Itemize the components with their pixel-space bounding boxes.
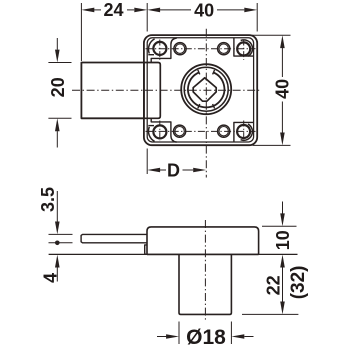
- top view: cover plate seam outline: [147, 38, 253, 142]
- dim D: extension line left: [146, 149, 148, 175]
- side view: flange: [147, 227, 259, 255]
- small hole bottom-right (double circle): [218, 125, 230, 137]
- dim D: arrow left: [147, 168, 160, 173]
- ear arc around BR hole: [241, 124, 253, 140]
- rotor circle: [188, 73, 224, 108]
- dim 40 right: arrow up: [280, 35, 285, 48]
- small hole top-right (double circle): [218, 43, 230, 55]
- dim 20: extension line top: [48, 62, 71, 64]
- svg-text:Ø18: Ø18: [186, 326, 226, 349]
- corner screw hole TL: [153, 42, 166, 55]
- hole centerline horizontal top: [146, 48, 256, 50]
- corner screw hole BR: [237, 125, 250, 138]
- square spindle hole (diamond): [193, 78, 216, 101]
- ear step lines BL: [148, 125, 154, 127]
- dim D: arrow right: [193, 168, 206, 173]
- dim 40: extension line right: [256, 3, 258, 32]
- corner screw hole TR: [237, 42, 250, 55]
- svg-text:(32): (32): [288, 266, 309, 300]
- dim O18: extension line right: [230, 322, 232, 345]
- ear arc around TL hole: [148, 39, 154, 54]
- dim 10: extension line top: [262, 225, 297, 227]
- hole centerline vertical BL: [159, 121, 161, 141]
- svg-text:22: 22: [263, 275, 283, 295]
- dim 3.5: dot line: [49, 242, 73, 244]
- dim 22: line: [282, 267, 284, 302]
- side view: mounting step bottom-left: [145, 245, 147, 255]
- svg-text:10: 10: [273, 230, 293, 250]
- svg-text:D: D: [167, 161, 180, 181]
- dim 10: arrow down (above): [282, 202, 284, 215]
- top view: lock case outer outline: [144, 35, 257, 145]
- dim 40 right: extension line bottom: [253, 144, 291, 146]
- dim O18: arrow right-pointing (left side): [157, 336, 167, 338]
- dim 24/40: extension line middle: [146, 3, 148, 32]
- small hole top-left (double circle): [174, 43, 186, 55]
- ear step lines BR: [234, 122, 254, 142]
- dim 20: extension line bottom: [48, 117, 71, 119]
- svg-text:24: 24: [103, 0, 123, 20]
- latch housing rectangle (24x20): [81, 63, 143, 119]
- rotor tick top-left: [198, 70, 200, 75]
- dim 40 right: extension line top: [252, 34, 291, 36]
- dim 24: extension line left: [80, 3, 82, 61]
- dim 3.5: dot: [55, 241, 60, 246]
- dim 40 top: arrow right: [244, 8, 257, 13]
- dim 10/22 shared: arrow up (below 254.4): [280, 255, 285, 268]
- dim 22: extension line bottom: [242, 313, 298, 315]
- small hole bottom-left (double circle): [174, 125, 186, 137]
- rotor tick bottom-left: [198, 104, 200, 109]
- cylinder second circle: [184, 67, 228, 111]
- side view: centerline vertical: [204, 220, 206, 321]
- hole centerline horizontal bottom: [146, 130, 256, 132]
- svg-text:40: 40: [273, 79, 293, 99]
- dim 40 right: arrow down: [280, 133, 285, 146]
- dim 22: arrow down: [280, 302, 285, 315]
- dim O18: extension line left: [178, 322, 180, 345]
- centerline vertical (top view): [205, 29, 207, 178]
- dim 24: arrow left: [81, 8, 94, 13]
- svg-text:4: 4: [40, 273, 60, 283]
- dim 24: arrow right: [134, 8, 147, 13]
- side view: cylinder body: [179, 254, 231, 314]
- corner screw hole BL: [153, 125, 166, 138]
- svg-text:40: 40: [194, 0, 214, 20]
- rotor tick top-right: [213, 70, 215, 75]
- dim 40 top: arrow left: [147, 8, 160, 13]
- rotor tick bottom-right: [213, 104, 215, 109]
- hole centerline vertical TL: [159, 40, 161, 61]
- side view: flange bottom line with extensions: [49, 253, 298, 255]
- svg-text:3.5: 3.5: [38, 187, 58, 212]
- side view: latch bolt: [81, 234, 147, 242]
- dim 20: arrow bottom: [56, 131, 58, 147]
- dim O18: arrow left-pointing (right side): [231, 334, 244, 339]
- ear arc around BL hole: [148, 127, 154, 142]
- hole centerline vertical BR: [243, 121, 245, 141]
- dim 4: arrow up: [55, 255, 60, 268]
- cylinder outer circle: [181, 64, 231, 114]
- hole centerline vertical TR: [243, 40, 245, 61]
- dim 20: arrow top: [56, 38, 58, 50]
- svg-text:20: 20: [48, 77, 68, 97]
- centerline horizontal (top view): [72, 89, 261, 91]
- latch case lines inside body: [144, 63, 160, 119]
- ear step lines TL: [148, 54, 154, 56]
- dim 3.5: arrow down: [56, 191, 58, 222]
- ear arc around TR hole: [241, 40, 253, 56]
- dim 3.5: extension stub top: [49, 233, 73, 235]
- ear step lines TR: [234, 38, 254, 56]
